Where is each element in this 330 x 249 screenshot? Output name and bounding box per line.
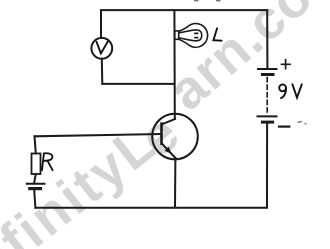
svg-text:arn.com: arn.com	[157, 0, 330, 122]
